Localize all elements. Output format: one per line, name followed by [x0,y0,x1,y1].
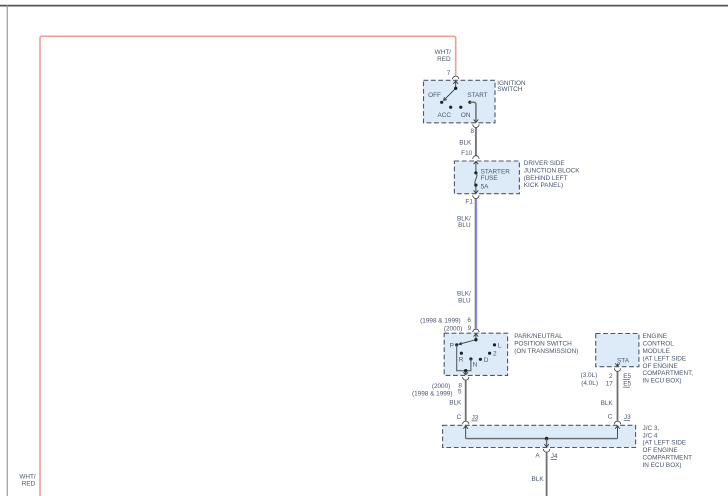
svg-text:BLK: BLK [532,476,545,483]
pin J3 label (left) [471,414,478,421]
svg-text:DRIVER SIDE: DRIVER SIDE [524,160,565,167]
svg-text:BLK: BLK [459,140,472,147]
svg-text:(4.0L): (4.0L) [581,380,598,387]
contact N dot [469,357,472,360]
svg-text:17: 17 [606,381,614,388]
contact ACC dot [449,106,452,109]
svg-text:BLK: BLK [449,400,462,407]
svg-text:JUNCTION BLOCK: JUNCTION BLOCK [524,168,580,175]
svg-text:D: D [484,357,489,364]
svg-text:IN ECU BOX): IN ECU BOX) [643,462,682,469]
J/C exit wire stub [546,439,548,447]
svg-text:FUSE: FUSE [481,175,498,182]
J/C left entry arrow [463,426,468,439]
pin label (3.0L) 2 E5 [581,372,632,380]
label STARTER FUSE 5A [481,168,511,190]
output junction dot [464,369,467,372]
svg-text:(AT LEFT SIDE: (AT LEFT SIDE [643,355,687,362]
svg-text:KICK PANEL): KICK PANEL) [524,182,563,189]
pin label (1998 & 1999) 6 [420,317,471,324]
svg-text:OFF: OFF [428,92,441,99]
svg-text:A: A [535,453,540,460]
svg-text:(BEHIND LEFT: (BEHIND LEFT [524,175,568,182]
svg-text:5: 5 [458,389,462,396]
wire P contact to N contact via output node [457,345,471,371]
svg-text:WHT/: WHT/ [435,49,452,56]
svg-text:7: 7 [447,70,451,77]
svg-text:BLK: BLK [601,400,614,407]
label WHT/RED (top, near pin 7) [435,49,452,63]
svg-text:2: 2 [609,373,613,380]
connector arc at pin 8 [473,124,479,127]
fuse F1 exit arrow [474,185,479,193]
svg-text:J3: J3 [472,414,479,421]
connector arc at F1 [473,195,479,198]
svg-text:ENGINE: ENGINE [643,333,668,340]
label PARK/NEUTRAL POSITION SWITCH (ON TRANSMISSION) [514,333,578,355]
svg-text:6: 6 [467,317,471,324]
ignition switch pin 7 arrow [453,81,458,88]
contact L dot [493,343,496,346]
contact D dot [479,358,482,361]
pin label (4.0L) 17 E5 [581,380,631,388]
pin label (2000) 8 [432,383,463,391]
connector arc at park/neutral switch entry [473,329,479,332]
svg-text:RED: RED [437,56,451,63]
svg-text:START: START [467,92,487,99]
svg-text:J/C 4: J/C 4 [643,432,658,439]
svg-text:9: 9 [468,325,472,332]
svg-text:(2000): (2000) [444,326,462,333]
pin J4 label [551,453,558,460]
J/C right entry arrow [615,426,620,439]
svg-text:J3: J3 [624,414,631,421]
contact START dot [468,101,471,104]
svg-text:(AT LEFT SIDE: (AT LEFT SIDE [643,440,687,447]
contact P dot [455,343,458,346]
svg-text:OF ENGINE: OF ENGINE [643,363,678,370]
svg-text:L: L [498,342,502,349]
wire BLK park/neutral to J/C [465,380,467,421]
label DRIVER SIDE JUNCTION BLOCK (BEHIND LEFT KICK PANEL) [524,160,580,189]
connector arc at J/C right entry [614,421,620,424]
svg-text:CONTROL: CONTROL [643,341,675,348]
engine control module box [596,334,639,367]
svg-text:POSITION SWITCH: POSITION SWITCH [514,340,572,347]
svg-text:BLU: BLU [458,298,471,305]
svg-text:R: R [459,357,464,364]
label J/C 3, J/C 4 block [643,425,693,469]
svg-text:STA: STA [617,357,630,364]
park/neutral switch entry arrow [474,334,479,340]
park/neutral exit arrow [463,371,468,375]
label BLK/BLU (upper) [457,215,471,229]
svg-text:(1998 & 1999): (1998 & 1999) [412,390,453,397]
wire START contact to pin 8 [470,102,476,122]
svg-text:C: C [608,413,613,420]
wire WHT/RED from ignition switch pin 7 around page left [40,36,456,496]
contact 2 dot [488,352,491,355]
connector arc at J/C exit A [543,449,549,452]
park/neutral position switch box S1 [444,333,507,375]
svg-text:COMPARTMENT,: COMPARTMENT, [643,370,694,377]
ignition switch wiper arm to OFF [444,89,455,100]
contact R dot [460,352,463,355]
svg-text:ACC: ACC [437,112,451,119]
junction connector J/C 3 J/C 4 box [443,425,636,447]
svg-text:5A: 5A [481,184,490,191]
svg-text:J/C 3,: J/C 3, [643,425,660,432]
svg-text:8: 8 [470,128,474,135]
svg-text:P: P [450,342,454,349]
starter fuse top terminal dot [474,171,477,174]
svg-text:WHT/: WHT/ [19,474,36,481]
svg-text:(3.0L): (3.0L) [581,372,598,379]
svg-text:SWITCH: SWITCH [497,86,523,93]
connector arc at park/neutral exit [463,377,469,380]
starter fuse element (5A) [475,173,477,185]
park/neutral wiper arm to P [459,340,475,345]
pin label (2000) 9 [444,325,472,332]
svg-text:OF ENGINE: OF ENGINE [643,447,678,454]
driver side junction block box [454,161,519,194]
svg-text:2: 2 [493,351,497,358]
wire BLK/BLU junction block to park/neutral switch (two-tone) [475,199,476,329]
wire BLK ignition to junction block [475,128,477,157]
page frame top border [0,5,728,7]
ignition switch box U1 [424,80,496,123]
svg-text:N: N [473,361,478,368]
svg-text:MODULE: MODULE [643,348,670,355]
label ENGINE CONTROL MODULE block [643,333,694,384]
pin J3 label (right) [624,414,631,421]
ECM STA exit arrow [615,363,620,366]
connector arc at F10 [473,156,479,159]
svg-text:E5: E5 [623,381,631,388]
svg-text:(2000): (2000) [432,383,450,390]
svg-text:IN ECU BOX): IN ECU BOX) [643,378,682,385]
ignition pin 8 arrow [474,120,479,123]
J/C exit arrow [544,444,549,447]
contact ON dot [459,106,462,109]
svg-text:F10: F10 [461,150,472,157]
label WHT/RED (bottom left) [19,474,36,488]
starter fuse bottom terminal dot [474,184,477,187]
label BLK/BLU (lower) [457,291,471,305]
page frame left border [6,5,8,496]
J/C internal bus wire [466,438,618,440]
wire BLK ECM to J/C [617,371,619,420]
svg-text:(ON TRANSMISSION): (ON TRANSMISSION) [514,348,578,355]
svg-text:BLU: BLU [458,222,471,229]
contact OFF dot [440,101,443,104]
svg-text:F1: F1 [465,198,473,205]
wire BLK J/C to bottom of page [546,452,548,496]
ignition switch common pole dot [454,87,457,90]
svg-text:PARK/NEUTRAL: PARK/NEUTRAL [514,333,563,340]
pin label (1998 & 1999) 5 [412,389,462,398]
svg-text:J4: J4 [551,453,558,460]
label IGNITION SWITCH [497,80,526,93]
J/C bus junction dot [545,437,549,441]
connector arc at J/C left entry [463,421,469,424]
svg-text:COMPARTMENT: COMPARTMENT [643,455,693,462]
svg-text:ON: ON [461,112,471,119]
connector arc at pin 7 [453,76,459,79]
svg-text:E5: E5 [623,373,631,380]
park/neutral common pole dot [474,338,477,341]
svg-text:(1998 & 1999): (1998 & 1999) [420,318,461,325]
fuse F10 entry arrow [474,161,479,173]
svg-text:RED: RED [22,481,36,488]
svg-text:C: C [457,414,462,421]
connector arc at ECM exit [614,368,620,371]
